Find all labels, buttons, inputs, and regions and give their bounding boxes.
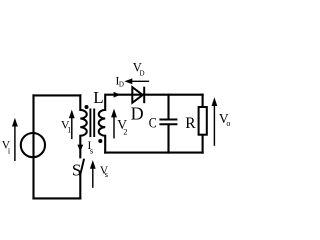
svg-text:s: s	[105, 169, 108, 179]
arrow Id (on wire, pointing right)	[114, 92, 121, 98]
transformer primary winding	[80, 110, 86, 136]
svg-text:2: 2	[123, 127, 127, 137]
arrow V1	[69, 110, 75, 140]
dot primary polarity	[85, 105, 89, 109]
arrow V2	[111, 109, 117, 139]
wire secondary top	[105, 95, 202, 110]
svg-text:R: R	[185, 115, 196, 132]
wire primary top	[79, 95, 81, 110]
wire input loop left	[32, 95, 34, 198]
wire secondary bottom	[104, 136, 106, 153]
arrow Is (on wire, pointing down)	[77, 145, 83, 152]
diode D triangle	[132, 87, 142, 103]
svg-text:o: o	[226, 119, 230, 128]
wire output bottom	[105, 152, 202, 154]
svg-text:D: D	[140, 69, 145, 77]
dot secondary polarity	[98, 139, 102, 143]
wire resistor branch top	[202, 95, 204, 107]
diode D cathode bar	[143, 87, 145, 104]
wire resistor branch bottom	[202, 135, 204, 153]
arrow Vs	[90, 160, 96, 188]
switch S blade	[80, 159, 84, 176]
svg-text:D: D	[131, 104, 144, 124]
svg-text:C: C	[149, 115, 157, 131]
wire primary bottom to switch	[79, 136, 81, 158]
wire input loop top	[34, 94, 81, 96]
arrow Vo	[212, 97, 218, 146]
wire capacitor branch top	[167, 95, 169, 119]
capacitor C plate top	[159, 119, 177, 121]
svg-text:1: 1	[67, 126, 71, 135]
svg-text:D: D	[119, 81, 124, 89]
capacitor C plate bottom	[159, 123, 177, 125]
wire input loop bottom	[34, 197, 81, 199]
svg-text:s: s	[90, 145, 93, 155]
arrow Vd (pointing left)	[124, 78, 149, 84]
transformer core	[89, 109, 91, 138]
resistor R box	[199, 107, 207, 135]
voltage source Vi circle	[21, 133, 45, 157]
svg-text:L: L	[93, 88, 103, 107]
transformer secondary winding	[99, 110, 105, 136]
wire capacitor branch bottom	[167, 125, 169, 152]
arrow Vi	[12, 118, 18, 161]
wire switch to bottom corner	[79, 176, 81, 199]
svg-text:S: S	[72, 161, 81, 180]
